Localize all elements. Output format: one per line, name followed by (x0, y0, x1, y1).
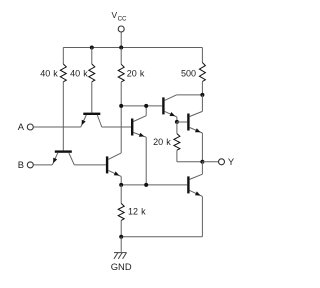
transistor Q5 (Darlington driver) (162, 95, 177, 117)
wire: bottom return to ground node (121, 236, 202, 238)
transistor Q2 (input B, base up) (52, 150, 74, 165)
terminal Y (219, 159, 225, 165)
label VCC (112, 10, 128, 22)
svg-text:Y: Y (228, 156, 235, 167)
node junction: 500 / Q5 / Q6 collectors (200, 93, 204, 97)
svg-text:40 k: 40 k (40, 69, 58, 79)
ground symbol (114, 253, 127, 259)
node junction: Q3 collector (144, 104, 148, 108)
terminal B (27, 162, 33, 168)
wire: Q5 collector to 500 node (176, 94, 202, 96)
node junction: output Y (200, 160, 204, 164)
wire: Q6 emitter to output node (201, 133, 203, 162)
svg-text:20 k: 20 k (153, 137, 171, 147)
svg-text:20 k: 20 k (127, 69, 145, 79)
svg-text:GND: GND (111, 261, 132, 272)
svg-text:B: B (18, 159, 24, 170)
wire: splitter collector bus to Q5 base (121, 105, 162, 107)
wire: VCC stem (120, 32, 122, 47)
node junction: Q4 emitter / 12k (119, 183, 123, 187)
node junction: Q5 emitter / Q6 base / 20k (175, 120, 179, 124)
node junction: Q3 emitter (144, 183, 148, 187)
wire: Y node to terminal (202, 161, 218, 163)
transistor Q1 (input A, base up) (81, 113, 102, 127)
wire: input A to Q1 emitter (33, 126, 80, 128)
wire: Q7 emitter drop (201, 196, 203, 236)
svg-text:A: A (18, 121, 25, 132)
resistor R6 12k (splitter emitter) (118, 185, 124, 237)
resistor R2 40k (input B pull-up... second) (89, 48, 95, 113)
wire: input B to Q2 emitter (33, 164, 52, 166)
svg-text:500: 500 (181, 69, 196, 79)
resistor R1 40k (input A pull-up, left) (60, 48, 66, 151)
resistor R3 20k (phase-splitter collector load) (118, 48, 124, 106)
svg-text:V: V (112, 10, 118, 20)
transistor Q4 (phase splitter B) (106, 153, 121, 177)
node junction: 40k R2 on rail (90, 46, 94, 50)
wire: splitter emitter bus to Q7 base (121, 184, 187, 186)
wire: Q2 collector to Q4 base (74, 164, 106, 166)
wire: Q1 collector to Q3 base (102, 126, 131, 128)
node junction: ground node (119, 235, 123, 239)
transistor Q6 (Darlington output) (177, 95, 202, 133)
terminal A (27, 124, 33, 130)
svg-text:40 k: 40 k (70, 69, 88, 79)
wire: ground stem (120, 237, 122, 252)
node junction: VCC stem on rail (119, 46, 123, 50)
wire: VCC top rail (63, 47, 202, 49)
node junction: R3 / riser (119, 104, 123, 108)
resistor R4 500 (output collector) (199, 48, 205, 95)
wire: Q4 emitter drop (120, 176, 122, 185)
transistor Q7 (pull-down output) (187, 162, 202, 197)
transistor Q3 (phase splitter A) (131, 106, 146, 137)
svg-text:12 k: 12 k (128, 207, 146, 217)
wire: Q4 collector riser (120, 106, 122, 153)
svg-text:CC: CC (118, 15, 127, 22)
resistor R5 20k (Q6 base bleed) (174, 122, 203, 162)
wire: Q3 emitter drop (145, 137, 147, 185)
wire: Q5 emitter drop (176, 117, 178, 122)
terminal VCC (118, 26, 124, 32)
